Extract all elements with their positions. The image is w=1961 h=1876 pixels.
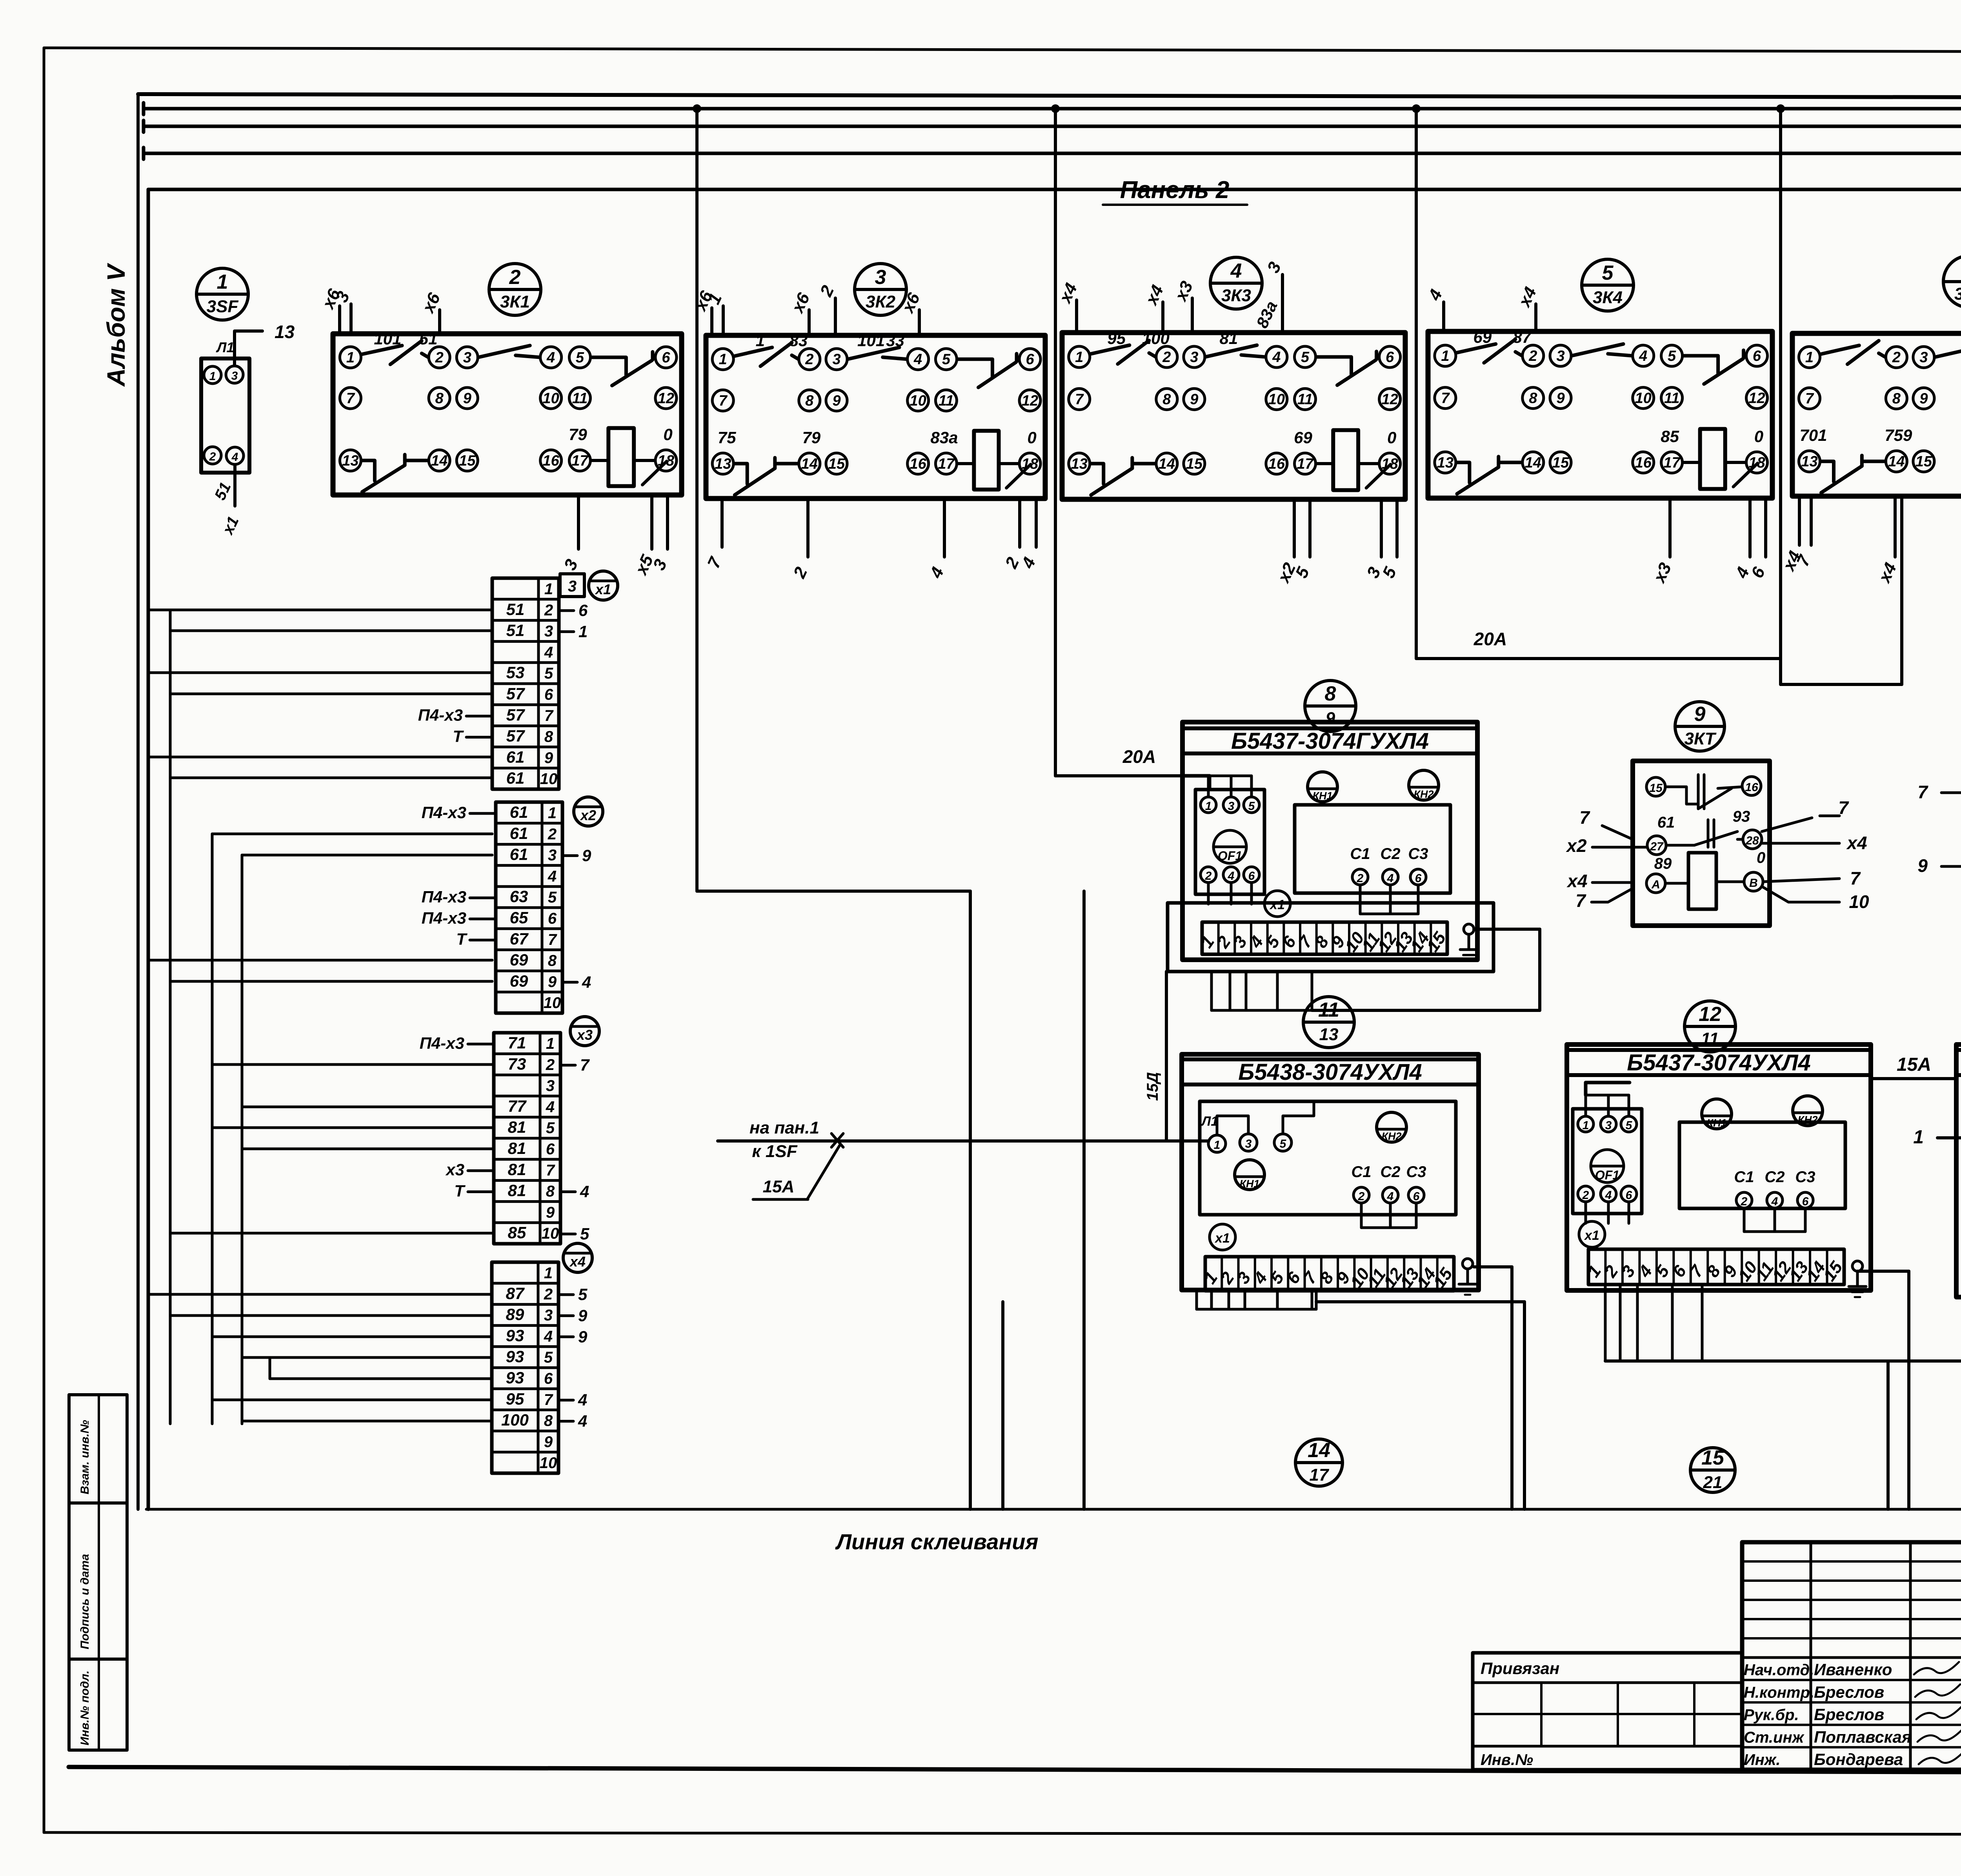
svg-text:х4: х4	[1566, 871, 1587, 891]
svg-text:2: 2	[1162, 349, 1171, 366]
svg-text:10: 10	[544, 994, 561, 1012]
bus wire Z-V	[144, 105, 1961, 136]
svg-text:57: 57	[506, 684, 525, 703]
svg-text:3: 3	[1605, 1119, 1612, 1132]
svg-text:Б5438-3074УХЛ4: Б5438-3074УХЛ4	[1238, 1059, 1422, 1085]
svg-text:12: 12	[1748, 390, 1765, 407]
wire 11/13 ground	[1473, 1263, 1512, 1264]
svg-text:4: 4	[544, 644, 553, 661]
svg-text:9: 9	[1917, 855, 1928, 876]
svg-text:10: 10	[910, 393, 926, 409]
svg-text:16: 16	[542, 453, 559, 469]
designator 15/21	[1690, 1447, 1735, 1492]
svg-text:61: 61	[506, 748, 525, 766]
svg-text:15: 15	[1552, 455, 1569, 471]
svg-text:11: 11	[572, 390, 588, 407]
svg-text:83а: 83а	[930, 428, 958, 447]
svg-text:61: 61	[510, 803, 528, 821]
inner frame bottom	[69, 1767, 1961, 1774]
designator 6/3K5	[1943, 256, 1961, 308]
power bus frame top	[138, 94, 1961, 1509]
svg-text:12: 12	[1381, 391, 1398, 408]
svg-text:КН1: КН1	[1706, 1117, 1726, 1129]
svg-text:20А: 20А	[1473, 629, 1507, 649]
svg-text:5: 5	[544, 1349, 553, 1366]
svg-text:14: 14	[1888, 453, 1905, 470]
svg-text:7: 7	[544, 707, 554, 724]
svg-text:3: 3	[1228, 800, 1235, 813]
magnetic starter block 12/11 B5437	[1567, 1044, 1871, 1297]
svg-text:В: В	[1749, 877, 1758, 890]
glue line	[146, 1508, 1961, 1511]
designator 5/3K4	[1582, 259, 1634, 311]
svg-text:Панель 2: Панель 2	[1120, 177, 1230, 204]
relay contactor 3K5	[1779, 333, 1961, 586]
svg-text:2: 2	[509, 266, 521, 289]
svg-text:15: 15	[1649, 782, 1663, 795]
panel 2 frame	[148, 189, 1961, 1509]
svg-text:7: 7	[346, 390, 355, 407]
svg-text:57: 57	[506, 727, 525, 745]
svg-text:14: 14	[431, 453, 448, 469]
svg-text:95: 95	[1107, 329, 1126, 348]
svg-text:7: 7	[1579, 807, 1590, 828]
designator 8/9	[1305, 681, 1356, 731]
svg-text:17: 17	[938, 456, 955, 472]
svg-text:9: 9	[1326, 709, 1335, 728]
svg-text:9: 9	[582, 846, 591, 865]
svg-text:0: 0	[1027, 428, 1036, 447]
svg-text:С3: С3	[1406, 1163, 1426, 1181]
svg-text:2: 2	[1528, 348, 1537, 364]
svg-text:81: 81	[1220, 329, 1238, 348]
stamp text vzam	[78, 1420, 91, 1494]
svg-text:13: 13	[275, 322, 295, 342]
svg-text:1: 1	[544, 580, 553, 598]
svg-text:7: 7	[1850, 868, 1861, 888]
svg-text:7: 7	[548, 931, 557, 948]
svg-text:8: 8	[544, 1412, 553, 1430]
svg-text:81: 81	[508, 1160, 526, 1179]
relay contactor 3K4	[1424, 284, 1772, 586]
designator 3/3K2	[855, 264, 906, 315]
svg-text:67: 67	[510, 930, 529, 948]
svg-text:13: 13	[1319, 1025, 1339, 1044]
svg-text:100: 100	[1142, 329, 1170, 348]
wire 20A feeder 2	[1416, 629, 1781, 659]
svg-text:7: 7	[546, 1162, 555, 1179]
designator 1/3SF	[196, 268, 248, 320]
svg-text:Инв.№: Инв.№	[1481, 1751, 1533, 1769]
svg-text:5: 5	[546, 1119, 555, 1137]
svg-text:П4-х3: П4-х3	[420, 1034, 464, 1052]
magnetic starter block 11/13 B5438	[1182, 1054, 1479, 1295]
wire 8/9 ground right	[1312, 929, 1540, 1010]
svg-text:11: 11	[1664, 390, 1679, 407]
svg-text:9: 9	[546, 1204, 555, 1221]
svg-text:3КТ: 3КТ	[1684, 729, 1717, 748]
svg-text:13: 13	[1071, 456, 1088, 472]
svg-text:5: 5	[578, 1285, 588, 1304]
relay contactor 3K2	[690, 282, 1045, 581]
svg-text:6: 6	[546, 1141, 555, 1158]
svg-text:Ст.инж: Ст.инж	[1744, 1729, 1805, 1746]
svg-text:13: 13	[715, 456, 731, 472]
svg-text:4: 4	[582, 973, 591, 991]
svg-text:4: 4	[1387, 872, 1394, 885]
svg-text:93: 93	[506, 1326, 524, 1345]
svg-text:51: 51	[506, 600, 525, 619]
svg-text:на пан.1: на пан.1	[749, 1118, 819, 1137]
svg-text:7: 7	[580, 1056, 590, 1074]
stamp column boxes	[69, 1395, 127, 1750]
svg-text:0: 0	[1757, 849, 1765, 866]
svg-text:3: 3	[1556, 348, 1564, 364]
svg-text:С3: С3	[1408, 845, 1428, 862]
svg-text:17: 17	[571, 453, 589, 469]
svg-text:5: 5	[1248, 800, 1255, 813]
svg-text:1: 1	[756, 331, 765, 350]
svg-text:16: 16	[1635, 455, 1652, 471]
svg-text:6: 6	[1248, 870, 1255, 883]
svg-text:17: 17	[1297, 456, 1314, 472]
svg-text:Иваненко: Иваненко	[1814, 1660, 1892, 1679]
svg-text:КН2: КН2	[1413, 788, 1433, 800]
wires below 11/13	[1197, 1291, 1316, 1309]
svg-text:12: 12	[1022, 393, 1038, 409]
svg-text:16: 16	[1745, 781, 1758, 794]
relay contactor 3K1	[318, 286, 682, 578]
svg-text:КН1: КН1	[1312, 790, 1332, 802]
svg-text:17: 17	[1310, 1465, 1330, 1485]
bus wire K-C	[144, 86, 1961, 118]
svg-text:4: 4	[580, 1183, 589, 1201]
svg-text:81: 81	[508, 1118, 526, 1136]
wires below 8/9	[1144, 972, 1312, 1139]
svg-text:15: 15	[828, 456, 845, 472]
svg-text:С1: С1	[1351, 1163, 1371, 1181]
svg-text:1: 1	[548, 804, 557, 822]
svg-text:Т: Т	[453, 727, 464, 746]
svg-text:10: 10	[1268, 391, 1285, 408]
svg-text:3: 3	[832, 351, 840, 368]
svg-text:65: 65	[510, 908, 528, 927]
svg-text:27: 27	[1650, 840, 1664, 853]
svg-text:к 1SF: к 1SF	[752, 1142, 797, 1161]
svg-text:Линия склеивания: Линия склеивания	[835, 1529, 1039, 1554]
svg-text:14: 14	[1308, 1439, 1330, 1462]
svg-text:9: 9	[1919, 391, 1928, 407]
svg-text:15: 15	[459, 453, 476, 469]
svg-text:С1: С1	[1350, 845, 1370, 862]
svg-text:5: 5	[1280, 1137, 1287, 1150]
svg-text:3: 3	[1919, 349, 1928, 366]
svg-text:QF1: QF1	[1595, 1168, 1619, 1182]
svg-text:95: 95	[506, 1390, 524, 1408]
svg-text:15: 15	[1701, 1447, 1725, 1469]
svg-text:3: 3	[544, 623, 553, 640]
svg-text:10: 10	[542, 1225, 559, 1242]
svg-text:3К3: 3К3	[1221, 286, 1251, 305]
svg-text:3: 3	[463, 349, 471, 366]
svg-text:15А: 15А	[1897, 1054, 1931, 1075]
svg-text:П4-х3: П4-х3	[422, 888, 466, 906]
svg-text:9: 9	[1556, 390, 1564, 407]
svg-text:1: 1	[1441, 348, 1449, 364]
wire label 83a	[1253, 298, 1281, 331]
svg-text:7: 7	[1575, 890, 1586, 911]
svg-text:9: 9	[1694, 703, 1706, 726]
svg-text:10: 10	[1635, 390, 1652, 407]
svg-text:15: 15	[1916, 453, 1932, 470]
svg-text:9: 9	[1190, 391, 1198, 408]
svg-text:2: 2	[1892, 349, 1901, 366]
svg-text:89: 89	[506, 1305, 524, 1324]
svg-text:С2: С2	[1765, 1168, 1785, 1186]
svg-text:1: 1	[1805, 349, 1814, 366]
designator 9/3KT	[1675, 702, 1725, 751]
svg-text:0: 0	[1387, 428, 1396, 447]
svg-text:17: 17	[1663, 455, 1681, 471]
svg-text:1: 1	[544, 1265, 553, 1282]
svg-text:10: 10	[540, 770, 558, 788]
svg-text:69: 69	[1294, 428, 1312, 447]
svg-text:8: 8	[805, 393, 814, 409]
svg-text:8: 8	[1892, 391, 1901, 407]
svg-text:20А: 20А	[1122, 746, 1156, 767]
svg-text:6: 6	[662, 349, 670, 366]
svg-text:Бондарева: Бондарева	[1814, 1750, 1903, 1769]
svg-text:2: 2	[1582, 1189, 1589, 1202]
magnetic starter block 8/9 B5437	[1168, 722, 1493, 972]
svg-text:7: 7	[1441, 390, 1450, 407]
svg-text:5: 5	[1602, 262, 1614, 284]
svg-text:5: 5	[942, 351, 951, 368]
designator 2/3K1	[489, 264, 541, 315]
svg-text:4: 4	[1230, 260, 1242, 282]
bus drop 3	[1412, 104, 1421, 659]
svg-text:2: 2	[209, 450, 216, 463]
svg-text:83: 83	[789, 331, 808, 350]
svg-text:61: 61	[510, 824, 528, 842]
terminal strip X3	[420, 1017, 599, 1244]
svg-text:12: 12	[658, 390, 674, 407]
svg-text:8: 8	[435, 390, 444, 407]
svg-text:7: 7	[544, 1391, 553, 1408]
wire to panel1	[718, 1139, 1208, 1143]
wires below 12/11	[1605, 1285, 1702, 1361]
wire 20A feeder 1	[1055, 746, 1182, 776]
svg-text:11: 11	[1297, 391, 1313, 408]
svg-text:1: 1	[719, 351, 727, 368]
svg-text:3: 3	[231, 369, 238, 382]
svg-text:85: 85	[508, 1223, 526, 1242]
svg-text:QF1: QF1	[1218, 849, 1242, 863]
bus drop 1	[693, 104, 701, 891]
svg-text:33: 33	[886, 331, 904, 350]
svg-text:5: 5	[548, 889, 557, 906]
svg-text:69: 69	[510, 951, 528, 969]
svg-text:89: 89	[1654, 855, 1672, 872]
svg-text:А: А	[1651, 878, 1660, 891]
svg-text:2: 2	[1358, 1190, 1365, 1203]
svg-text:х2: х2	[580, 807, 596, 823]
svg-text:1: 1	[578, 622, 588, 641]
svg-text:х1: х1	[1584, 1228, 1599, 1243]
svg-text:4: 4	[544, 1328, 553, 1345]
svg-text:69: 69	[510, 972, 528, 990]
svg-text:73: 73	[508, 1055, 526, 1073]
svg-text:3К1: 3К1	[500, 292, 530, 311]
svg-text:13: 13	[1801, 453, 1817, 470]
svg-text:63: 63	[510, 887, 528, 906]
svg-text:1: 1	[209, 370, 216, 383]
svg-text:2: 2	[544, 1286, 553, 1303]
svg-text:53: 53	[506, 663, 525, 682]
wire bottom run 11-12	[1605, 1361, 1961, 1509]
designator 4/3K3	[1210, 257, 1262, 309]
svg-text:6: 6	[1413, 1190, 1420, 1203]
svg-text:П4-х3: П4-х3	[422, 803, 466, 822]
svg-text:6: 6	[548, 910, 557, 927]
svg-text:2: 2	[548, 826, 557, 843]
svg-text:4: 4	[548, 868, 557, 885]
svg-text:0: 0	[1754, 427, 1763, 446]
svg-text:8: 8	[544, 728, 553, 746]
bus drop 2	[1051, 104, 1060, 776]
svg-text:3: 3	[546, 1077, 555, 1095]
svg-text:1: 1	[217, 271, 228, 293]
svg-text:6: 6	[1802, 1195, 1809, 1208]
svg-text:2: 2	[546, 1056, 555, 1074]
svg-text:15: 15	[1186, 456, 1203, 472]
bus wire ZhS-A	[144, 131, 1961, 163]
svg-text:6: 6	[1386, 349, 1394, 366]
svg-text:10: 10	[1849, 892, 1869, 912]
svg-text:16: 16	[910, 456, 926, 472]
svg-text:С2: С2	[1380, 845, 1400, 862]
svg-text:2: 2	[1205, 870, 1212, 883]
svg-text:Л1: Л1	[216, 339, 235, 355]
glue line label	[808, 1529, 1071, 1558]
svg-text:Нач.отд.: Нач.отд.	[1744, 1661, 1814, 1679]
svg-text:1: 1	[1583, 1119, 1589, 1132]
svg-text:13: 13	[1437, 455, 1453, 471]
svg-text:Привязан: Привязан	[1481, 1659, 1559, 1678]
svg-text:93: 93	[506, 1347, 524, 1366]
svg-text:87: 87	[1513, 328, 1532, 346]
svg-text:7: 7	[1075, 391, 1084, 408]
svg-text:100: 100	[501, 1411, 529, 1429]
svg-text:П4-х3: П4-х3	[418, 706, 463, 724]
svg-text:х1: х1	[595, 581, 611, 597]
svg-text:10: 10	[542, 390, 559, 407]
svg-text:КН1: КН1	[1239, 1178, 1259, 1190]
wire x-mid vertical pair	[1316, 1267, 1524, 1509]
svg-text:21: 21	[1703, 1473, 1723, 1492]
svg-text:1: 1	[1205, 800, 1212, 813]
svg-text:3: 3	[568, 578, 577, 595]
svg-text:Н.контр.: Н.контр.	[1744, 1684, 1814, 1701]
wire ground 12/11 down	[1857, 1271, 1909, 1509]
svg-text:9: 9	[578, 1327, 588, 1346]
svg-text:Т: Т	[454, 1182, 466, 1200]
wire drop1 to X2 area	[697, 891, 970, 1509]
svg-text:4: 4	[546, 1098, 555, 1115]
svg-text:х1: х1	[1214, 1231, 1230, 1246]
svg-text:х4: х4	[569, 1254, 586, 1270]
svg-text:61: 61	[506, 769, 525, 787]
svg-text:6: 6	[544, 1370, 553, 1387]
terminal strip X4	[492, 1243, 592, 1473]
svg-text:14: 14	[801, 456, 818, 472]
svg-text:3К4: 3К4	[1593, 288, 1623, 307]
wire 1 to L1	[1913, 1127, 1961, 1148]
svg-text:7: 7	[1917, 782, 1928, 802]
svg-text:11: 11	[939, 393, 954, 409]
svg-text:7: 7	[719, 393, 728, 409]
svg-text:4: 4	[578, 1391, 587, 1409]
svg-text:61: 61	[1657, 814, 1675, 831]
svg-text:4: 4	[1387, 1190, 1394, 1203]
svg-text:Альбом V: Альбом V	[102, 262, 130, 387]
designator 14/17	[1295, 1439, 1343, 1486]
fuse label 15A	[1871, 1054, 1956, 1079]
svg-text:С2: С2	[1380, 1163, 1400, 1181]
svg-text:69: 69	[1473, 328, 1492, 346]
stamp text podpis	[78, 1554, 91, 1649]
svg-text:КН2: КН2	[1797, 1114, 1817, 1126]
svg-text:Поплавская: Поплавская	[1814, 1728, 1912, 1746]
svg-text:3SF: 3SF	[207, 297, 239, 316]
svg-text:6: 6	[1753, 348, 1761, 364]
stamp text inv	[78, 1670, 91, 1745]
svg-text:6: 6	[1626, 1189, 1632, 1202]
svg-text:79: 79	[569, 425, 587, 444]
svg-text:8: 8	[546, 1183, 555, 1200]
svg-text:8: 8	[548, 952, 557, 970]
svg-text:9: 9	[832, 393, 840, 409]
svg-text:9: 9	[578, 1306, 588, 1325]
title block left extension	[1473, 1653, 1742, 1770]
svg-text:8: 8	[1529, 390, 1537, 407]
svg-text:4: 4	[578, 1412, 587, 1430]
svg-text:9: 9	[544, 749, 553, 766]
svg-text:4: 4	[231, 451, 238, 464]
svg-text:6: 6	[544, 686, 553, 703]
svg-text:5: 5	[544, 665, 553, 682]
svg-text:С3: С3	[1795, 1168, 1815, 1186]
svg-text:4: 4	[1605, 1189, 1612, 1202]
svg-text:16: 16	[1268, 456, 1285, 472]
svg-text:12: 12	[1699, 1003, 1721, 1026]
svg-text:Т: Т	[456, 930, 468, 948]
svg-text:1: 1	[546, 1035, 555, 1052]
svg-text:П4-х3: П4-х3	[422, 909, 466, 927]
wire feeder to 3K5	[1781, 496, 1902, 684]
svg-text:13: 13	[342, 453, 358, 469]
svg-text:9: 9	[548, 973, 557, 990]
time relay block 9/3KT	[1565, 761, 1869, 926]
svg-text:х3: х3	[445, 1161, 464, 1179]
wire below 12/11 left	[1886, 1361, 1890, 1509]
svg-text:87: 87	[506, 1284, 525, 1303]
panel 2 label	[1103, 177, 1247, 205]
svg-text:Л1: Л1	[1201, 1114, 1218, 1129]
svg-text:3: 3	[875, 266, 886, 289]
svg-text:6: 6	[1415, 872, 1422, 885]
svg-text:2: 2	[544, 602, 553, 619]
